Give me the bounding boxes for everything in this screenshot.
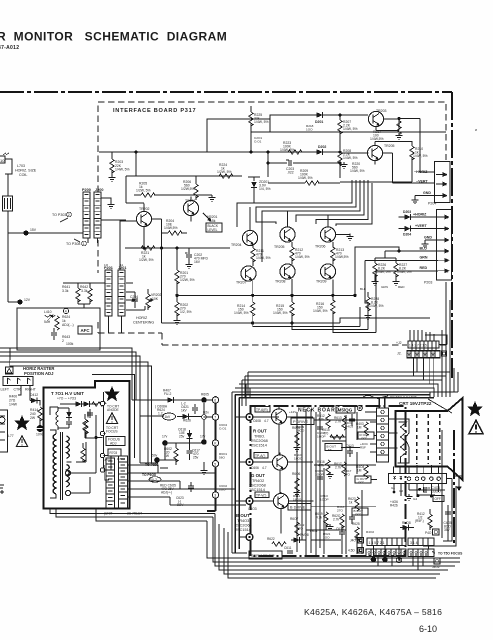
wire drops from stair bundle — [132, 400, 164, 465]
anode lead — [455, 476, 463, 491]
R703 adj box — [105, 449, 121, 470]
svg-text:O.O1: O.O1 — [254, 140, 262, 144]
wires into gun — [389, 419, 398, 448]
svg-text:27O: 27O — [344, 473, 350, 477]
TP-6(R) box — [255, 407, 270, 413]
small pin circle — [202, 411, 210, 420]
resistor R201 — [175, 248, 195, 295]
TO CRT ANODE label — [107, 405, 120, 413]
resistor R703 vertical — [84, 420, 88, 438]
svg-text:10%: 10% — [36, 433, 43, 437]
resistor R216 — [313, 295, 335, 323]
svg-text:6: 6 — [214, 399, 216, 403]
wires bus taps to neck junction circles — [235, 417, 247, 537]
neck board title — [298, 408, 340, 414]
raster switch assembly — [3, 377, 33, 386]
stair bus wire 4 — [239, 384, 438, 397]
svg-text:4: 4 — [447, 239, 449, 243]
wire bus to P201 — [63, 283, 105, 308]
resistor R226 — [372, 258, 391, 285]
small parts: resistor R614 — [356, 422, 368, 436]
svg-text:1/4W, 5%: 1/4W, 5% — [413, 154, 428, 158]
junction dot BLU — [397, 249, 400, 252]
svg-text:ADJ(-..): ADJ(-..) — [62, 323, 74, 327]
svg-text:.022: .022 — [287, 171, 294, 175]
svg-text:4.7k: 4.7k — [318, 464, 324, 468]
svg-text:C608: C608 — [253, 419, 261, 423]
svg-text:2SC1514: 2SC1514 — [249, 488, 265, 492]
CRT gun outline — [398, 419, 410, 463]
H.V unit title — [51, 391, 84, 401]
svg-text:TO T7O H.V UNIT: TO T7O H.V UNIT — [390, 396, 417, 400]
transistor TR603 — [273, 493, 288, 508]
pin 1 RED — [376, 266, 449, 273]
svg-text:1kV: 1kV — [165, 415, 171, 419]
resistor R208 — [338, 132, 358, 178]
ground fill neck2 — [294, 445, 301, 451]
svg-text:TP-A('): TP-A(') — [255, 454, 265, 458]
R DRIVE box — [291, 418, 314, 425]
svg-text:1/4W, 5%: 1/4W, 5% — [397, 270, 412, 274]
black level box — [206, 223, 222, 232]
CRT socket feeder strip — [377, 408, 389, 462]
svg-text:CRT 19VJTP22: CRT 19VJTP22 — [399, 401, 432, 406]
M5/QG box — [336, 406, 355, 414]
transistor TR202 — [136, 207, 151, 227]
label TO P308 — [66, 239, 86, 246]
junction dot — [397, 117, 400, 120]
svg-text:R MONITOR SCHEMATIC DIAGRA: R MONITOR SCHEMATIC DIAGRAM — [0, 30, 227, 44]
ground at P203 — [422, 242, 429, 248]
svg-text:87-A012: 87-A012 — [0, 45, 19, 51]
interface board P317 outline — [98, 102, 446, 192]
junction dots y323 — [251, 321, 294, 324]
svg-text:1/2W, 5%: 1/2W, 5% — [139, 258, 154, 262]
wire stubs J201 to VR202 — [126, 283, 145, 310]
pin 2 -VERT — [416, 180, 447, 187]
svg-text:BLK: BLK — [360, 287, 367, 291]
label TO P808 — [145, 463, 168, 468]
svg-text:J7O2: J7O2 — [104, 458, 112, 462]
diode D201 — [315, 112, 323, 124]
resistor R624 — [55, 315, 74, 330]
svg-text:1OOP: 1OOP — [315, 473, 324, 477]
label cluster hv right — [104, 457, 125, 462]
svg-text:25v: 25v — [193, 456, 199, 460]
svg-text:4: 4 — [65, 310, 67, 314]
resistor fill r621 — [292, 426, 301, 446]
VR box R out — [358, 432, 374, 441]
label G OUT TR602 — [249, 466, 267, 492]
svg-text:RVO8: RVO8 — [402, 521, 411, 525]
svg-text:J2.: J2. — [397, 352, 402, 356]
svg-text:16V: 16V — [194, 260, 201, 264]
transistor TR203 — [368, 109, 386, 127]
svg-text:OFF: OFF — [358, 481, 364, 485]
svg-text:1/4W, 5%: 1/4W, 5% — [343, 156, 358, 160]
ground fill neck3 — [294, 490, 301, 496]
svg-text:P200: P200 — [82, 188, 91, 192]
svg-text:LEFT: LEFT — [1, 388, 10, 392]
svg-text:ANODE: ANODE — [107, 408, 120, 412]
wire y163 with cap — [268, 152, 340, 177]
cap fill c609 — [317, 424, 323, 432]
CRT socket strip — [389, 474, 447, 484]
svg-text:1/4W, 5%: 1/4W, 5% — [298, 176, 313, 180]
SERVICE TIP box — [249, 551, 282, 559]
horizontal wire y295 — [177, 294, 355, 296]
svg-text:1/4W, 5%: 1/4W, 5% — [369, 304, 384, 308]
transistor TR204 — [231, 230, 258, 247]
inductor L410 — [44, 310, 55, 324]
winding tap circles — [65, 462, 76, 496]
svg-text:2: 2 — [62, 339, 64, 343]
svg-text:R OUT: R OUT — [253, 429, 267, 434]
star frame wires — [92, 375, 135, 459]
pin circle 6 — [212, 397, 218, 403]
svg-text:1/4W, 5%: 1/4W, 5% — [343, 127, 358, 131]
connector J201 — [118, 266, 126, 316]
label cluster mid column — [219, 423, 227, 492]
ground right of TR206 — [347, 234, 354, 240]
resistor R225 — [249, 112, 269, 132]
svg-text:1/4W,5%: 1/4W,5% — [164, 226, 178, 230]
ground near TR201 — [209, 195, 216, 201]
potentiometer VR201 — [203, 213, 217, 223]
right bundle turns — [423, 479, 456, 546]
ground at P204 — [412, 198, 419, 204]
svg-text:L77: L77 — [8, 434, 14, 438]
bundle corner down right of H.V — [207, 514, 460, 575]
socket pin drops — [394, 484, 439, 496]
svg-text:4.7: 4.7 — [264, 419, 269, 423]
diode D626 — [177, 414, 199, 423]
diode vertical — [187, 430, 193, 444]
svg-text:47O: 47O — [297, 527, 303, 531]
warning triangle lower-left — [16, 436, 27, 447]
svg-text:TR205: TR205 — [274, 245, 285, 249]
left edge tick marks — [0, 485, 4, 494]
resistor fill r623 — [348, 497, 359, 511]
svg-text:TR205: TR205 — [384, 144, 395, 148]
svg-text:2SC2O68: 2SC2O68 — [251, 439, 268, 443]
svg-text:G4: G4 — [413, 497, 417, 501]
svg-text:L410: L410 — [44, 310, 52, 314]
resistor fill r625 — [352, 522, 360, 541]
svg-text:TO T5O FOCUS: TO T5O FOCUS — [438, 552, 463, 556]
svg-text:OFF: OFF — [355, 513, 361, 517]
diode D407 — [156, 389, 202, 404]
connector row 2 left — [366, 549, 406, 557]
label horiz centering — [133, 316, 154, 325]
svg-text:1/2W, 5%: 1/2W, 5% — [136, 189, 151, 193]
45D key box — [348, 548, 364, 554]
svg-text:TR4O3: TR4O3 — [237, 519, 249, 523]
wire TR205 to -VERT — [383, 153, 434, 183]
VR B out 5K box — [325, 444, 342, 453]
svg-text:18OO: 18OO — [296, 429, 305, 433]
svg-text:1: 1 — [447, 269, 449, 273]
svg-text:1/4W, 5%: 1/4W, 5% — [313, 309, 328, 313]
wire socket to C404 — [409, 484, 445, 495]
svg-text:J4O2: J4O2 — [432, 565, 440, 569]
ground fill neck1 — [327, 524, 334, 530]
resistor R215 — [273, 295, 294, 323]
label C621 — [181, 402, 189, 413]
svg-text:4.7: 4.7 — [262, 466, 267, 470]
svg-text:T 7O1 H.V UNIT: T 7O1 H.V UNIT — [51, 391, 84, 396]
svg-text:NECK BOARD: NECK BOARD — [298, 408, 340, 414]
bus wires below AFC box — [0, 348, 152, 465]
P40 key box — [425, 529, 439, 535]
diode D400 — [30, 393, 40, 406]
svg-text:D202: D202 — [318, 145, 326, 149]
stray scan dot — [475, 129, 477, 131]
svg-text:6: 6 — [447, 216, 449, 220]
node dot R605 — [201, 393, 209, 403]
svg-text:15V: 15V — [30, 228, 37, 232]
svg-text:2: 2 — [447, 259, 449, 263]
TP-4 box — [255, 492, 269, 498]
neck board vertical rails — [306, 409, 320, 553]
heavy feeder turn — [404, 368, 454, 392]
svg-text:B OUT: B OUT — [236, 513, 250, 518]
svg-text:3: 3 — [445, 173, 447, 177]
svg-text:P4O: P4O — [425, 531, 432, 535]
resistor R211 — [251, 246, 271, 265]
svg-text:12V: 12V — [24, 298, 31, 302]
label TO P303 — [52, 212, 71, 222]
svg-text:R626: R626 — [183, 419, 191, 423]
label horiz raster position adj — [23, 366, 54, 376]
resistor R702 vertical — [83, 414, 87, 438]
svg-text:OFF: OFF — [361, 437, 367, 441]
diode D202 — [317, 145, 327, 155]
svg-text:1k: 1k — [349, 501, 353, 505]
node dot — [23, 228, 36, 236]
label C608A — [155, 405, 168, 416]
svg-text:K4625A, K4626A, K4675A – 5816: K4625A, K4626A, K4675A – 5816 — [304, 607, 442, 617]
svg-text:2SC1514: 2SC1514 — [251, 444, 267, 448]
svg-text:4.5D: 4.5D — [348, 549, 355, 553]
svg-text:ADJ(+-): ADJ(+-) — [161, 491, 172, 495]
svg-text:4.7k: 4.7k — [318, 418, 324, 422]
resistor R602 body — [174, 443, 178, 465]
pin circle 7 — [212, 414, 218, 420]
cap fill c610 — [317, 474, 323, 482]
CRT funnel outline — [396, 398, 463, 480]
svg-text:G2: G2 — [399, 489, 403, 493]
svg-text:GRN: GRN — [381, 285, 388, 289]
J40 key box — [350, 538, 364, 544]
svg-text:SERVICE TIP: SERVICE TIP — [251, 554, 275, 558]
heavy wires down to neck board — [235, 395, 239, 554]
doorknob cap C621 — [163, 413, 176, 420]
junction circle bottom — [246, 534, 253, 541]
cap C702 — [87, 409, 93, 418]
svg-text:GND: GND — [423, 191, 431, 195]
svg-text:AFC: AFC — [81, 328, 91, 333]
svg-text:+12V: +12V — [289, 410, 297, 414]
inductor L703 label — [15, 164, 37, 177]
neck board border — [251, 406, 406, 556]
connector J202 row — [397, 351, 440, 358]
ground and R220 — [341, 162, 365, 173]
svg-text:O.O1: O.O1 — [219, 427, 227, 431]
svg-text:18OO: 18OO — [294, 457, 303, 461]
ground right — [406, 494, 413, 500]
svg-text:CTR: CTR — [14, 388, 22, 392]
svg-text:1.5k: 1.5k — [209, 219, 216, 223]
star at H.V unit — [104, 386, 120, 401]
thick feeder line x215 — [207, 396, 216, 511]
resistor R224 — [217, 163, 242, 178]
transistor TR208 — [275, 264, 295, 284]
wire bottom bundle extra — [228, 532, 436, 578]
node dot 17v left — [162, 435, 168, 446]
svg-text:L6O1: L6O1 — [310, 529, 318, 533]
resistor R642 — [80, 283, 92, 304]
wire TR206 to ground — [336, 234, 350, 235]
svg-text:GND: GND — [424, 236, 432, 240]
component box (horiz size coil) — [3, 196, 13, 211]
ground under R202 — [174, 318, 181, 324]
label R406 — [390, 500, 398, 508]
svg-text:7: 7 — [214, 416, 216, 420]
svg-text:TP-V('): TP-V(') — [256, 494, 266, 498]
resistor R643 — [62, 335, 74, 346]
diode-cap chain — [58, 408, 72, 428]
mid cap — [88, 412, 90, 418]
svg-text:C614: C614 — [336, 527, 344, 531]
svg-text:−HORIZ: −HORIZ — [414, 170, 428, 174]
resistor R400 — [9, 395, 18, 407]
svg-text:TR204: TR204 — [231, 243, 242, 247]
capacitor C203 — [286, 160, 294, 175]
capacitor C202 — [185, 248, 208, 268]
internal wires H.V — [76, 438, 96, 493]
wires H.V right terminals to connectors — [104, 434, 110, 481]
pin 3 -HORIZ — [414, 170, 447, 177]
svg-text:R4O2: R4O2 — [366, 530, 374, 534]
B DRIVE box — [288, 504, 311, 511]
connector P203 — [424, 210, 452, 285]
svg-text:FOCUS: FOCUS — [106, 430, 118, 434]
cap C405 — [444, 512, 453, 532]
svg-text:COIL: COIL — [19, 173, 27, 177]
pin circle 3 — [212, 492, 218, 498]
junction dots top area — [250, 114, 342, 165]
svg-text:33OO: 33OO — [432, 490, 441, 494]
small parts: B row cap — [349, 512, 355, 524]
stair bus wire 3 — [242, 380, 442, 406]
svg-text:HORIZ: HORIZ — [136, 316, 148, 320]
svg-text:1M: 1M — [357, 469, 362, 473]
svg-text:2SC2O68: 2SC2O68 — [235, 524, 252, 528]
VR box B row — [352, 508, 368, 517]
resistor R701 — [92, 402, 106, 406]
diode D204 — [399, 226, 438, 237]
svg-text:TR203: TR203 — [376, 109, 387, 113]
heavy horizontal feeders above neck board — [235, 395, 434, 398]
TP-5 box — [254, 453, 268, 459]
svg-text:56O: 56O — [219, 456, 225, 460]
svg-text:3: 3 — [447, 250, 449, 254]
transistor TR209 — [316, 264, 336, 284]
label cluster interface top — [254, 124, 314, 144]
small parts: RV08 diode — [291, 533, 309, 543]
svg-text:1/4W,5%: 1/4W,5% — [335, 255, 349, 259]
capacitor C411 — [51, 328, 57, 340]
node dot on AFC box — [17, 298, 30, 305]
svg-text:TR207: TR207 — [236, 281, 247, 285]
chassis top dash-dot border — [0, 91, 452, 93]
wires J701 to neck board — [128, 465, 247, 505]
resistor R221 — [139, 246, 155, 262]
junction dots on y295 — [175, 294, 334, 297]
small parts row R: resistor R613 — [334, 416, 346, 430]
transformer secondary winding — [67, 436, 70, 487]
connector P200 — [82, 188, 91, 238]
svg-text:TR4O2: TR4O2 — [252, 479, 264, 483]
svg-text:FU-2: FU-2 — [164, 392, 171, 396]
connector P201 — [104, 266, 113, 316]
svg-text:2: 2 — [445, 183, 447, 187]
resistor R217 — [370, 121, 401, 142]
connector J701 strip — [119, 456, 128, 509]
svg-text:3: 3 — [214, 494, 216, 498]
svg-text:CENTERING: CENTERING — [133, 321, 154, 325]
svg-text:1OOP: 1OOP — [320, 498, 329, 502]
svg-text:1/2W, 5%: 1/2W, 5% — [217, 170, 232, 174]
keying box P202 — [425, 335, 447, 345]
AFC sub-board box — [17, 308, 100, 350]
OFF box — [433, 496, 444, 502]
socket pin stubs up — [394, 465, 439, 474]
svg-text:P204: P204 — [428, 202, 436, 206]
neck board extra rails — [297, 412, 362, 548]
resistor R210 — [340, 141, 428, 182]
svg-text:1OO: 1OO — [306, 128, 313, 132]
svg-text:1/4W, 5%: 1/4W, 5% — [254, 120, 269, 124]
svg-text:R4O3: R4O3 — [345, 425, 353, 429]
VR box G out — [355, 476, 371, 485]
chassis right dash-dot border — [451, 92, 453, 378]
svg-text:LEVEL: LEVEL — [208, 228, 218, 232]
small parts: B row resistor — [315, 512, 328, 526]
svg-text:R426: R426 — [390, 504, 398, 508]
svg-text:C611: C611 — [284, 546, 292, 550]
wire top stub R225 — [250, 106, 252, 112]
transistor TR602 — [272, 455, 287, 470]
svg-text:P7O2: P7O2 — [117, 457, 125, 461]
label RED C605 — [160, 484, 176, 495]
transformer T701 core — [61, 432, 63, 500]
svg-text:L703: L703 — [17, 164, 25, 168]
label R602 — [164, 447, 172, 458]
resistor R228 — [365, 292, 384, 319]
svg-text:18OO: 18OO — [293, 498, 302, 502]
ground at J200 — [101, 198, 114, 208]
resistor R205 — [134, 182, 162, 198]
label under HV box — [104, 512, 142, 516]
node dot conn 1 — [371, 557, 377, 563]
svg-text:R625: R625 — [352, 522, 360, 526]
svg-text:1.2: 1.2 — [158, 412, 163, 416]
svg-text:KR: KR — [426, 486, 431, 490]
svg-text:2.7k: 2.7k — [333, 518, 339, 522]
wires lower neck verticals to connectors — [297, 530, 362, 556]
